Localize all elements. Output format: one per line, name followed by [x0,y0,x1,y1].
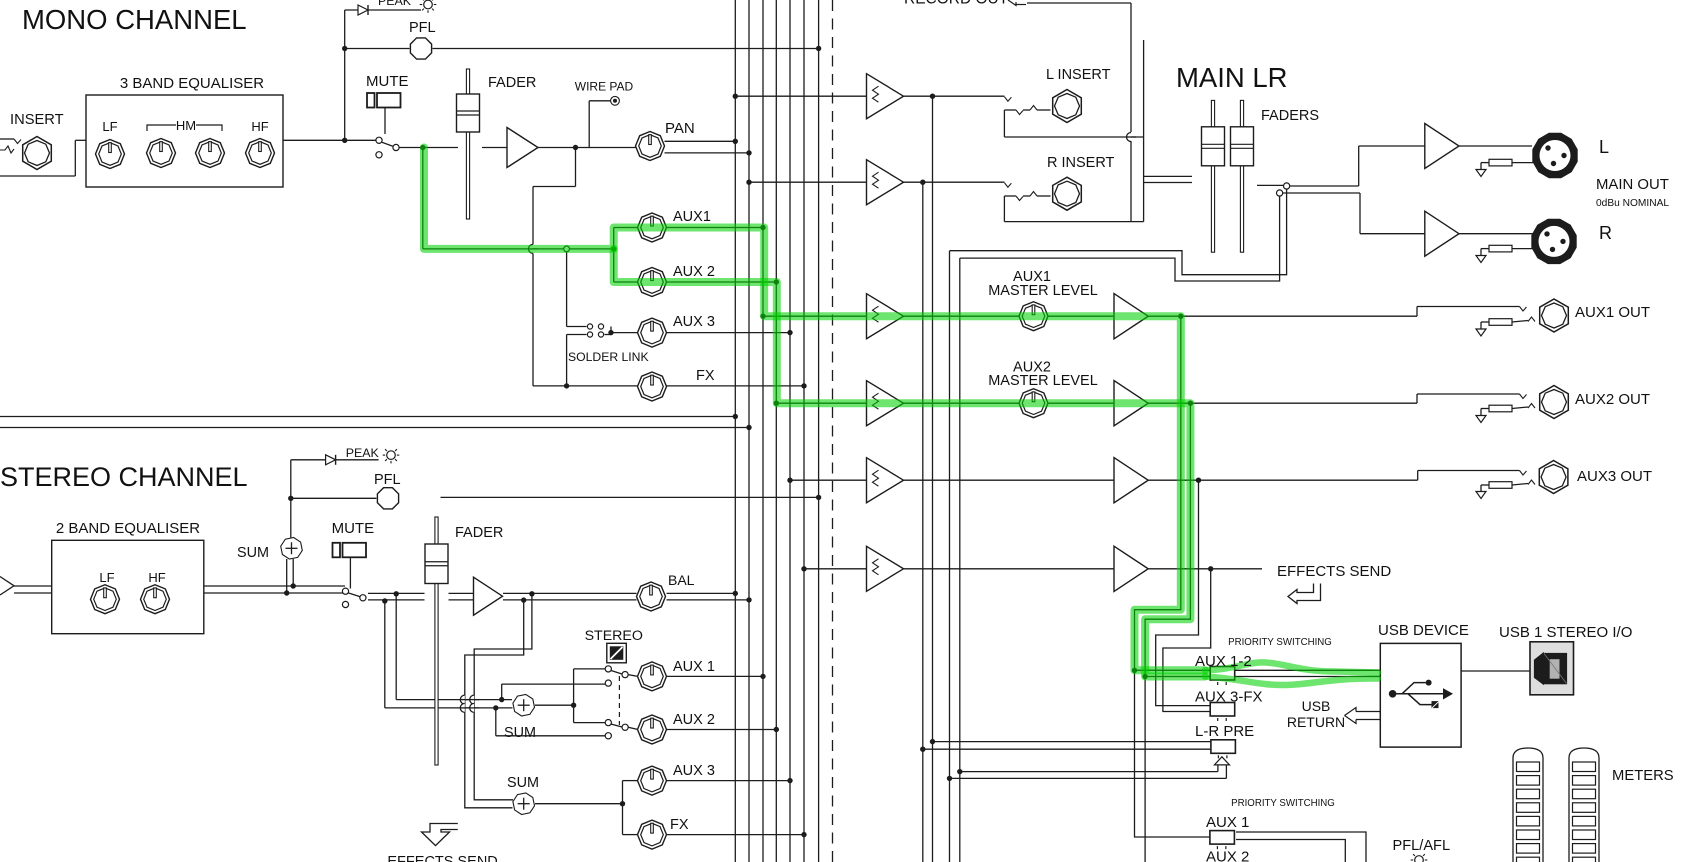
svg-text:EFFECTS SEND: EFFECTS SEND [1277,563,1391,580]
svg-text:PEAK: PEAK [378,0,412,8]
svg-text:MASTER LEVEL: MASTER LEVEL [988,283,1098,299]
svg-text:PRIORITY SWITCHING: PRIORITY SWITCHING [1231,798,1335,809]
svg-text:L: L [1599,137,1609,157]
svg-text:PRIORITY SWITCHING: PRIORITY SWITCHING [1228,637,1332,648]
svg-text:RETURN: RETURN [1287,714,1345,730]
svg-text:AUX 3: AUX 3 [673,314,715,330]
svg-text:STEREO CHANNEL: STEREO CHANNEL [0,462,248,492]
svg-text:SUM: SUM [507,775,539,791]
svg-text:MUTE: MUTE [366,73,409,90]
svg-text:FX: FX [670,817,689,833]
svg-text:FX: FX [696,368,715,384]
svg-text:FADER: FADER [488,75,536,91]
svg-text:PEAK: PEAK [346,446,380,460]
svg-text:STEREO: STEREO [585,628,643,644]
svg-text:HM: HM [176,118,196,133]
svg-text:WIRE PAD: WIRE PAD [575,80,634,94]
svg-text:PFL: PFL [409,20,436,36]
svg-text:EFFECTS SEND: EFFECTS SEND [387,854,497,862]
svg-text:USB DEVICE: USB DEVICE [1378,622,1469,639]
svg-text:L-R PRE: L-R PRE [1195,723,1254,740]
svg-text:HF: HF [251,119,268,134]
svg-text:AUX 1-2: AUX 1-2 [1195,653,1252,670]
svg-text:FADERS: FADERS [1261,108,1319,124]
svg-text:USB: USB [1302,698,1331,714]
svg-text:INSERT: INSERT [10,112,64,128]
svg-text:MONO CHANNEL: MONO CHANNEL [22,4,247,35]
svg-text:AUX 3: AUX 3 [673,763,715,779]
svg-text:AUX 2: AUX 2 [1206,849,1249,862]
svg-text:AUX1: AUX1 [673,209,711,225]
svg-text:AUX3 OUT: AUX3 OUT [1577,468,1652,485]
svg-text:MAIN OUT: MAIN OUT [1596,177,1669,193]
svg-text:AUX 1: AUX 1 [1206,814,1249,831]
svg-text:AUX 3-FX: AUX 3-FX [1195,689,1263,706]
svg-text:AUX 2: AUX 2 [673,712,715,728]
svg-text:PAN: PAN [665,120,695,137]
svg-text:2 BAND EQUALISER: 2 BAND EQUALISER [56,520,200,537]
svg-text:METERS: METERS [1612,768,1674,784]
svg-text:R INSERT: R INSERT [1047,155,1115,171]
svg-text:MUTE: MUTE [332,520,375,537]
svg-text:AUX 1: AUX 1 [673,659,715,675]
svg-text:USB 1 STEREO I/O: USB 1 STEREO I/O [1499,624,1632,641]
svg-text:PFL/AFL: PFL/AFL [1393,838,1451,854]
svg-text:SUM: SUM [237,545,269,561]
svg-text:FADER: FADER [455,525,503,541]
svg-text:HF: HF [148,570,165,585]
svg-text:0dBu NOMINAL: 0dBu NOMINAL [1596,198,1669,209]
svg-text:RECORD OUT: RECORD OUT [904,0,1009,8]
svg-text:MASTER LEVEL: MASTER LEVEL [988,373,1098,389]
svg-text:AUX2 OUT: AUX2 OUT [1575,391,1650,408]
svg-text:BAL: BAL [668,572,695,588]
svg-text:LF: LF [102,119,117,134]
svg-text:SUM: SUM [504,725,536,741]
svg-text:L INSERT: L INSERT [1046,67,1111,83]
svg-text:AUX 2: AUX 2 [673,264,715,280]
svg-text:PFL: PFL [374,472,401,488]
svg-text:AUX1 OUT: AUX1 OUT [1575,304,1650,321]
svg-text:SOLDER LINK: SOLDER LINK [568,350,649,364]
svg-text:LF: LF [99,570,114,585]
svg-text:R: R [1599,223,1612,243]
svg-text:3 BAND EQUALISER: 3 BAND EQUALISER [120,75,264,92]
svg-text:MAIN LR: MAIN LR [1176,62,1288,93]
